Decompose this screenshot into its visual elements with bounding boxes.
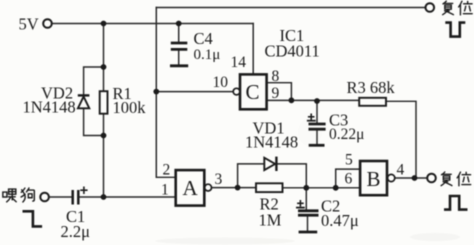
svg-text:1: 1: [161, 182, 169, 199]
svg-text:1N4148: 1N4148: [245, 133, 298, 152]
svg-text:1N4148: 1N4148: [23, 98, 76, 117]
svg-text:5V: 5V: [19, 15, 39, 34]
svg-text:100k: 100k: [113, 98, 147, 117]
svg-text:C4: C4: [194, 29, 213, 48]
svg-text:4: 4: [397, 162, 405, 179]
svg-text:5: 5: [345, 152, 353, 169]
svg-text:C: C: [246, 80, 260, 104]
svg-text:2.2μ: 2.2μ: [61, 222, 91, 241]
svg-text:1M: 1M: [259, 211, 282, 230]
svg-text:0.22μ: 0.22μ: [329, 126, 364, 143]
svg-text:0.47μ: 0.47μ: [321, 211, 359, 230]
svg-text:2: 2: [163, 162, 171, 179]
svg-text:9: 9: [272, 85, 280, 102]
svg-text:B: B: [367, 167, 381, 191]
svg-text:10: 10: [213, 74, 229, 91]
svg-text:CD4011: CD4011: [265, 42, 320, 61]
svg-text:R3 68k: R3 68k: [347, 78, 396, 97]
svg-text:14: 14: [231, 54, 247, 71]
svg-text:3: 3: [215, 171, 223, 188]
svg-text:8: 8: [272, 68, 280, 85]
svg-text:6: 6: [345, 171, 353, 188]
svg-text:0.1μ: 0.1μ: [194, 47, 221, 63]
svg-text:A: A: [183, 176, 199, 200]
